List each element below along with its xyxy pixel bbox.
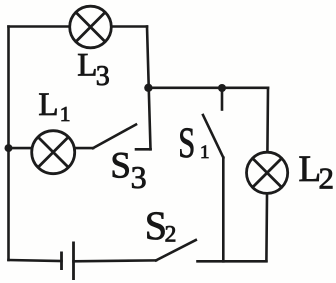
label L2	[299, 149, 335, 196]
switch S1 blade	[203, 115, 223, 158]
wire: top horizontal	[9, 25, 148, 28]
wire: bottom left segment	[9, 260, 62, 261]
wire: S1 lower vertical	[222, 158, 225, 262]
junction node at top of S1	[218, 84, 226, 92]
switch S3 blade	[93, 125, 136, 149]
wire: right vertical through L2	[266, 88, 268, 261]
junction node at top of S3 vertical	[144, 84, 152, 92]
svg-text:1: 1	[200, 142, 210, 163]
label S2	[145, 203, 177, 248]
wire: bottom middle segment battery to S2	[74, 259, 157, 262]
lamp L3	[70, 6, 112, 48]
label S1	[178, 120, 209, 167]
label L1	[38, 87, 70, 126]
svg-text:3: 3	[131, 159, 147, 195]
junction node on left wire	[5, 144, 13, 152]
svg-text:1: 1	[60, 102, 71, 126]
wire: L1 branch horizontal	[9, 147, 94, 150]
svg-text:S: S	[178, 120, 195, 167]
svg-text:L: L	[77, 47, 97, 83]
label S3	[110, 145, 146, 195]
svg-text:S: S	[110, 145, 131, 186]
wire: middle horizontal	[148, 87, 268, 90]
lamp L2	[247, 152, 288, 193]
svg-text:2: 2	[165, 222, 177, 248]
svg-text:L: L	[38, 87, 58, 123]
svg-text:2: 2	[319, 161, 335, 196]
wire: S1 stub from junction	[221, 88, 224, 110]
switch S2 blade	[156, 240, 196, 260]
label L3	[77, 47, 110, 92]
battery long plate	[72, 242, 75, 281]
wire: left vertical	[7, 27, 10, 261]
wire: bottom right segment	[198, 260, 267, 263]
lamp L1	[32, 131, 75, 174]
battery short plate	[60, 252, 63, 271]
svg-text:3: 3	[96, 61, 110, 92]
wire: vertical from top wire down to S3 contact	[147, 27, 151, 150]
wire: S3 fixed contact foot	[136, 148, 151, 151]
